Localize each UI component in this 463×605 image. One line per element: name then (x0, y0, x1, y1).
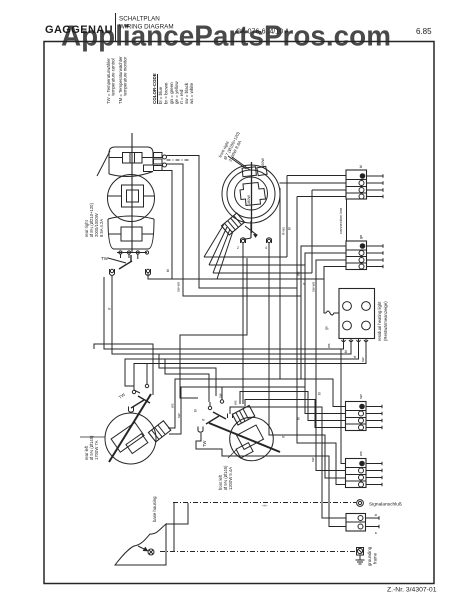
wire bundle M2 (209, 264, 305, 266)
burner E2 front right: outer circle (222, 165, 280, 223)
burner E2 inner circle (235, 177, 268, 210)
burner E4 label front left (218, 465, 233, 490)
svg-text:br = brown: br = brown (164, 82, 169, 104)
svg-text:bl: bl (318, 392, 322, 395)
wire indicator pin4 long (134, 344, 366, 393)
legend COLOR-CODE (152, 73, 194, 104)
X1 terminal dots (360, 174, 365, 179)
burner E1 label rear right (84, 203, 104, 237)
burner E3 supply connector (hatched) (148, 421, 170, 442)
wire E1 connector short dash (167, 159, 191, 161)
svg-text:bl: bl (344, 350, 348, 353)
svg-text:TW: TW (101, 256, 109, 261)
wire X1 row1 feed rt-ws (287, 176, 346, 258)
burner E1 rear right: top element band (109, 147, 153, 174)
X4 terminal dots (360, 461, 365, 466)
wire rear-left connector to H1 (168, 379, 346, 428)
H1 bottom pins (342, 339, 346, 345)
svg-text:bl = blue: bl = blue (158, 86, 163, 104)
wire TW front-left to X5 row2 (196, 433, 346, 527)
burner E1 terminal connector right (154, 153, 163, 158)
grounding label (367, 546, 378, 566)
grounding dashed wire (160, 551, 356, 553)
svg-text:Signalanschluß: Signalanschluß (369, 502, 402, 508)
grounding lug (357, 548, 364, 556)
svg-text:ws: ws (234, 400, 238, 405)
burner E2 label leader (228, 156, 247, 169)
wire bundle M4 TW to box curl (148, 273, 324, 280)
svg-text:rt: rt (303, 283, 307, 285)
wire E2 to X1 row2 (280, 182, 347, 184)
burner E4 supply connector (hatched) (232, 405, 254, 425)
wire E1 connector upper (167, 156, 298, 289)
signal terminal dash-dot wire (173, 502, 356, 504)
burner E3 inner resistors (111, 422, 149, 458)
wire X1 row3 feed (312, 190, 346, 273)
legend underline (157, 74, 159, 104)
svg-text:8.5A 4.2A: 8.5A 4.2A (99, 219, 104, 237)
svg-text:ws = white: ws = white (189, 82, 194, 104)
legend TW TM (106, 56, 128, 104)
switch TW rear right contacts (110, 269, 115, 276)
svg-text:ws: ws (359, 451, 363, 456)
H1 input curl left (326, 311, 339, 315)
terminal block X5 (2 pole) (346, 514, 366, 532)
signal terminal (357, 500, 364, 507)
svg-text:ws: ws (327, 343, 331, 348)
H1 lamp circles (343, 302, 352, 311)
burner E1 circle inner resistor (122, 185, 144, 207)
X3 pins right (366, 406, 382, 408)
svg-text:temperature control: temperature control (111, 58, 116, 104)
wire TW front-left to X5 row1 (230, 407, 346, 518)
svg-text:sw: sw (177, 413, 181, 418)
drawing frame (44, 42, 434, 584)
svg-text:gn: gn (359, 235, 363, 239)
X1 pins right (367, 175, 384, 177)
wire nested corner c (165, 359, 209, 402)
svg-text:grounding: grounding (367, 546, 372, 566)
residual heat indicator H1 box (339, 289, 375, 339)
X3 terminal dots (360, 404, 365, 409)
svg-text:6.85: 6.85 (416, 27, 432, 36)
burner E1 middle circle (108, 175, 155, 222)
svg-text:1200W 5.4A: 1200W 5.4A (228, 467, 233, 490)
terminal block X2 (right) (346, 241, 367, 270)
wire E1 connector lower (167, 164, 302, 296)
wire X2 row2 down to X3 row2 (305, 253, 346, 414)
burner E2 rim resistor left (242, 167, 256, 177)
svg-text:h: h (374, 514, 378, 516)
svg-text:residual heating light: residual heating light (377, 301, 382, 341)
svg-text:500W: 500W (261, 158, 265, 168)
svg-text:Z.-Nr. 3/4307-01: Z.-Nr. 3/4307-01 (387, 587, 437, 594)
burner E4 inner resistors (230, 425, 266, 458)
svg-text:bl: bl (288, 227, 292, 230)
X4 pins right (366, 463, 382, 465)
svg-text:connection bar: connection bar (338, 207, 343, 234)
terminal pin end ticks (382, 174, 384, 178)
burner E1 junction terminals row (119, 251, 122, 254)
svg-text:sw: sw (361, 357, 365, 362)
wire X1 row4 feed (297, 197, 346, 289)
wire front-left pins to X3 row4 (245, 400, 346, 428)
wire E1 pin3 down band (162, 171, 172, 280)
burner E1 rear right: center line (131, 133, 133, 253)
wire indicator pin1 long (104, 277, 344, 349)
svg-text:sw-ws: sw-ws (177, 282, 181, 292)
burner E2 label front right (217, 131, 242, 163)
wire rear-left TW feeds from top (146, 364, 148, 381)
svg-text:AppliancePartsPros.com: AppliancePartsPros.com (61, 21, 391, 53)
svg-text:gn: gn (325, 326, 329, 330)
svg-text:rt: rt (353, 356, 357, 358)
wire X4 row3 feed (269, 392, 346, 479)
burner E2 middle circle (227, 170, 275, 218)
svg-text:sw: sw (359, 394, 363, 399)
base housing ground screw (148, 549, 154, 555)
burner E2 center line (251, 162, 253, 233)
wire X2 row1 down to X3 row1 (301, 246, 346, 379)
wire TM contact left down (242, 243, 244, 404)
wire nested corner b (159, 354, 216, 396)
wire bundle M1 (204, 256, 287, 258)
wire rear-left connector to H2 (169, 387, 305, 434)
X2 terminal dots (360, 244, 365, 249)
wire bundle M3 (213, 272, 312, 274)
svg-text:4: 4 (265, 246, 267, 250)
svg-text:base housing: base housing (152, 496, 157, 522)
burner E1 connector terminal circles (163, 155, 167, 159)
svg-text:bl: bl (297, 417, 301, 420)
burner E2 inner resistors (240, 183, 266, 206)
terminal block X1 (top right) (346, 170, 367, 199)
svg-text:ws: ws (171, 403, 175, 408)
grounding earth symbol (359, 555, 361, 560)
wire TM contact right down (268, 243, 270, 392)
terminal block X4 (346, 459, 367, 488)
svg-text:(Restwärmeanzeige): (Restwärmeanzeige) (383, 301, 388, 341)
base housing L-wire (166, 503, 188, 524)
wire indicator pin3 long (125, 344, 359, 386)
svg-text:COLOR-CODE: COLOR-CODE (152, 73, 157, 104)
svg-text:temperature monitor: temperature monitor (123, 56, 128, 104)
svg-text:ws: ws (297, 271, 301, 276)
connection bar between X1 X2 (346, 199, 348, 241)
wire TW front-left feeds (221, 387, 223, 396)
burner E3 capillary tube (109, 394, 151, 462)
burner E3 rear left: circle (105, 413, 156, 464)
wire TM center L (180, 258, 247, 398)
wire X4 row4 feed (297, 288, 346, 485)
burner E1 bottom element band (108, 219, 154, 249)
svg-text:bl: bl (359, 165, 363, 168)
burner E2 rim resistor right (257, 166, 267, 175)
wire X2 row4 to indicator curl (324, 267, 346, 314)
svg-text:2: 2 (237, 246, 239, 250)
monitor TM front right (250, 221, 252, 238)
svg-text:rt: rt (202, 419, 206, 421)
base housing sheet corner (115, 524, 166, 565)
burner E3 label rear left (84, 435, 99, 460)
burner E1 top band inner resistor (123, 153, 143, 164)
switch TW rear left (132, 390, 135, 393)
svg-text:rt-ws: rt-ws (282, 227, 286, 235)
H1 label residual heating light (377, 301, 388, 341)
wire nested corner a (94, 344, 153, 395)
wire X4 row1 feed (341, 349, 346, 464)
burner E4 capillary tube (209, 423, 280, 452)
svg-text:180W: 180W (247, 195, 251, 205)
svg-text:1700W 7A: 1700W 7A (94, 440, 99, 460)
base housing arrow (138, 546, 146, 550)
burner E1 label leader (97, 151, 110, 176)
svg-text:sw-ws: sw-ws (312, 282, 316, 292)
wire X2 row3 down to X4 row2 (316, 260, 346, 471)
svg-text:sw: sw (311, 457, 315, 462)
burner E2 supply connector (hatched) (221, 213, 244, 235)
header divider (115, 13, 117, 41)
svg-text:bl: bl (166, 269, 170, 272)
svg-text:rt: rt (108, 308, 112, 310)
burner E1 bottom band inner resistor (121, 227, 142, 241)
terminal block X3 (346, 402, 367, 431)
TM contacts (241, 238, 246, 243)
svg-text:e: e (374, 532, 378, 534)
wire long vertical x280 (279, 188, 281, 379)
burner E4 front left: circle (230, 417, 274, 461)
svg-text:bl: bl (194, 409, 198, 412)
svg-text:rt: rt (282, 436, 286, 438)
svg-text:frame: frame (373, 552, 378, 564)
svg-text:sw: sw (219, 393, 223, 398)
svg-text:TW: TW (202, 440, 207, 447)
wire indicator pin2 long (112, 276, 351, 354)
switch TW front left (208, 406, 211, 409)
svg-text:-≈-: -≈- (262, 503, 268, 508)
X2 pins right (367, 245, 384, 247)
wire TW rear-right left contact stubs (121, 254, 130, 258)
wire bundle from E2 connector (diagonals) (204, 224, 224, 257)
wire front-left pins to X3 row3 (240, 392, 346, 421)
